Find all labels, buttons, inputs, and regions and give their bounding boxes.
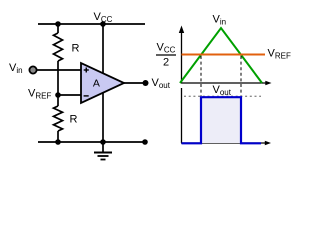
top graph y-axis <box>179 26 184 84</box>
node A: Vref divider midpoint dot <box>55 92 61 98</box>
wire: divider middle segment <box>57 61 59 106</box>
svg-text:2: 2 <box>163 57 169 69</box>
node: junction dot op-amp ground <box>100 139 106 145</box>
node: junction dot rail right end <box>142 139 148 145</box>
op-amp U1 comparator A <box>81 63 124 103</box>
dashed crossing marker right <box>240 56 242 96</box>
wire: divider lower lead <box>57 131 59 142</box>
terminal: Vin input circle <box>29 66 36 73</box>
svg-text:R: R <box>72 43 80 55</box>
svg-text:Vout: Vout <box>213 84 232 97</box>
node: junction dot divider bottom <box>55 139 61 145</box>
ground <box>94 142 112 160</box>
waveform: Vout pulse (blue) <box>182 97 262 143</box>
op-amp plus input marker <box>84 68 89 73</box>
dashed crossing marker left <box>200 56 202 96</box>
svg-text:VREF: VREF <box>28 88 51 101</box>
node: output dot <box>143 80 149 86</box>
resistor R1 <box>54 33 63 61</box>
wire: Vref to inverting input <box>58 94 81 96</box>
bottom graph x-axis <box>181 141 271 146</box>
wire: Vin to non-inverting input <box>37 69 81 71</box>
svg-text:Vout: Vout <box>152 77 171 90</box>
wire: divider upper lead <box>57 24 59 33</box>
svg-text:VREF: VREF <box>268 48 291 61</box>
threshold line VREF (orange) <box>182 54 266 56</box>
svg-text:VCC: VCC <box>94 11 113 24</box>
svg-text:Vin: Vin <box>213 14 227 27</box>
waveform: Vout pulse fill <box>202 97 240 143</box>
dashed Vout high level line (gray) <box>184 95 261 97</box>
label VCC/2 fraction <box>156 42 176 69</box>
wire: top Vcc rail <box>38 23 145 25</box>
resistor R2 <box>54 106 63 131</box>
node: junction dot Vcc at op-amp <box>100 21 106 27</box>
svg-text:A: A <box>93 77 100 89</box>
wire: op-amp power rail vertical (Vcc to ground, behind op-amp) <box>102 24 104 142</box>
svg-text:VCC: VCC <box>157 42 176 55</box>
bottom graph y-axis <box>181 88 183 143</box>
node: junction dot divider top <box>55 21 61 27</box>
top graph x-axis <box>181 81 272 86</box>
op-amp minus input marker <box>84 95 89 97</box>
svg-text:Vin: Vin <box>9 62 23 75</box>
wire: output <box>124 82 145 84</box>
wire: bottom ground rail <box>38 141 145 143</box>
svg-text:R: R <box>70 114 78 126</box>
waveform: Vin triangle (green) <box>180 28 262 83</box>
